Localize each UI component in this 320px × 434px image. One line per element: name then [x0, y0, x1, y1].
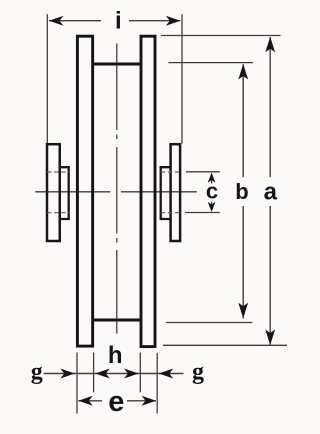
- bore hidden line upper-left: [47, 171, 70, 173]
- arrowhead a-top: [265, 37, 275, 53]
- extension line a-top: [161, 35, 281, 37]
- bore hidden line lower-right: [161, 212, 181, 214]
- extension line bottom x157.2: [156, 353, 158, 414]
- extension line c-bottom: [185, 212, 220, 214]
- extension line b-top: [169, 62, 254, 64]
- left boss tall rect: [47, 144, 60, 241]
- svg-text:h: h: [108, 342, 123, 369]
- svg-text:g: g: [31, 359, 43, 385]
- arrowhead a-bottom: [265, 330, 275, 346]
- dimension line b: [242, 64, 244, 318]
- dimension line bottom chain g-h-g: [44, 373, 184, 375]
- svg-text:c: c: [206, 178, 218, 203]
- extension line i-right: [181, 14, 183, 143]
- dimension line a: [269, 37, 271, 345]
- vertical centerline: [116, 44, 118, 334]
- dimension arrow c-up: [211, 176, 213, 184]
- arrowhead g-left: [60, 369, 75, 379]
- horizontal centerline: [35, 191, 197, 193]
- svg-text:i: i: [115, 7, 122, 34]
- arrowhead e-right: [142, 396, 157, 406]
- svg-text:g: g: [192, 359, 204, 385]
- dimension arrow c-down: [211, 202, 213, 209]
- arrowhead e-left: [78, 396, 93, 406]
- bore hidden line lower-left: [47, 212, 70, 214]
- extension line bottom x77: [76, 353, 78, 414]
- dimension line i: [49, 20, 180, 22]
- dimension line e: [78, 400, 156, 402]
- right flange outline: [141, 36, 155, 346]
- svg-text:e: e: [108, 386, 124, 418]
- arrowhead b-top: [238, 64, 248, 80]
- svg-text:a: a: [264, 178, 278, 205]
- hub top face line: [93, 63, 141, 66]
- arrowhead i-right: [166, 16, 181, 26]
- arrowhead g-right: [159, 369, 174, 379]
- extension line bottom x93.6: [93, 353, 95, 393]
- arrowhead i-left: [49, 16, 64, 26]
- right boss tall rect: [171, 144, 181, 241]
- hub bottom face line: [93, 319, 141, 322]
- left boss step rect: [60, 167, 69, 219]
- bore hidden line upper-right: [161, 171, 181, 173]
- right boss step rect: [161, 167, 171, 219]
- arrowhead h-left: [95, 369, 110, 379]
- extension line a-bottom: [163, 344, 287, 346]
- extension line bottom x140.3: [139, 353, 141, 393]
- extension line b-bottom: [166, 322, 252, 324]
- svg-text:b: b: [235, 179, 248, 204]
- arrowhead h-right: [124, 369, 139, 379]
- left flange outline: [77, 36, 92, 346]
- extension line c-top: [186, 171, 220, 173]
- arrowhead b-bottom: [238, 303, 248, 319]
- extension line i-left: [46, 14, 48, 143]
